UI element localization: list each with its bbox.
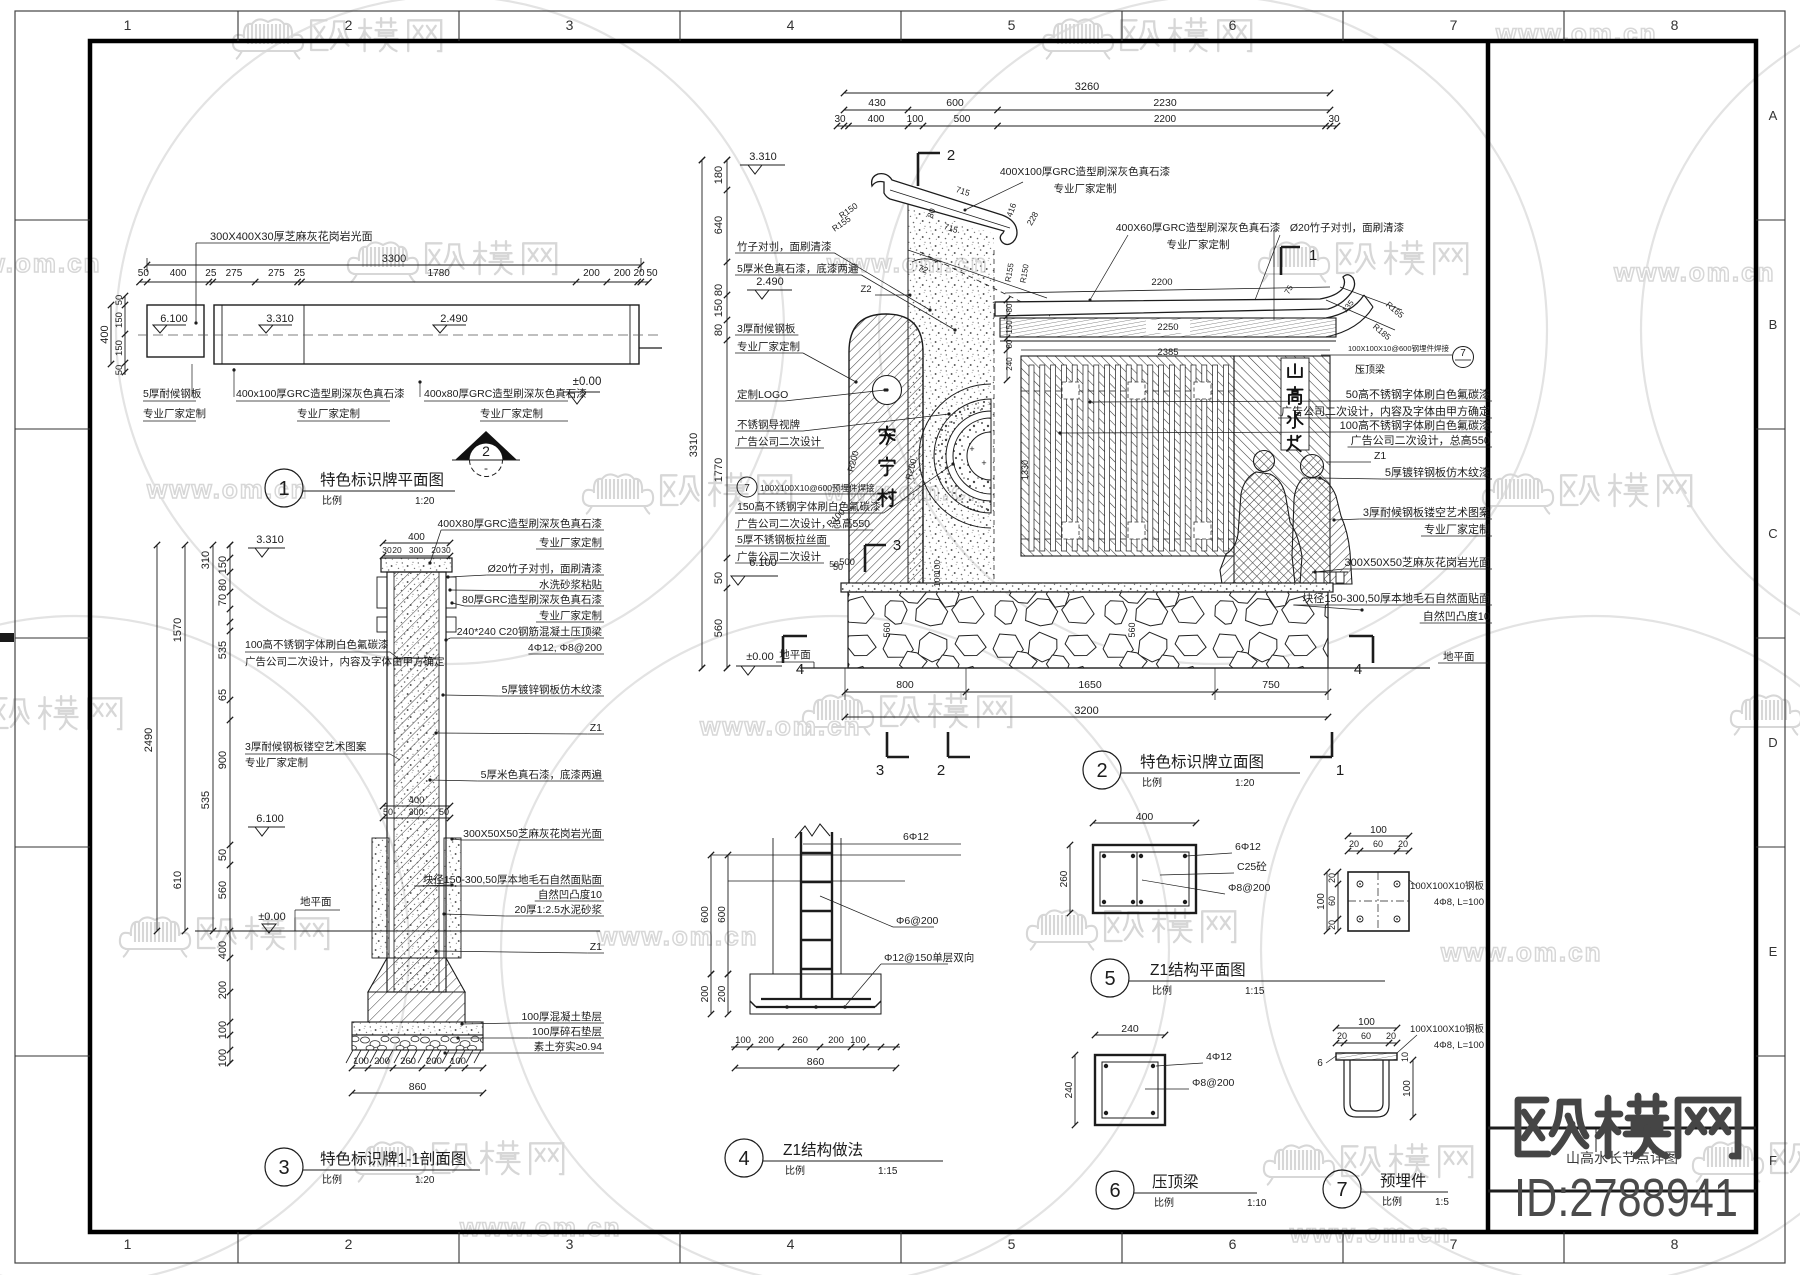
- svg-text:200: 200: [717, 985, 728, 1002]
- svg-text:50: 50: [217, 849, 229, 861]
- svg-text:比例: 比例: [322, 1173, 342, 1186]
- svg-text:275: 275: [268, 268, 285, 279]
- svg-text:比例: 比例: [785, 1164, 805, 1177]
- elev dim row3: [837, 125, 1337, 127]
- svg-text:自然凹凸度10: 自然凹凸度10: [538, 888, 602, 901]
- svg-text:640: 640: [713, 216, 725, 234]
- svg-text:自然凹凸度10: 自然凹凸度10: [1423, 609, 1490, 623]
- section flag 2 top: [917, 153, 920, 186]
- svg-text:3: 3: [876, 762, 884, 779]
- svg-text:3: 3: [893, 537, 901, 554]
- svg-text:专业厂家定制: 专业厂家定制: [539, 536, 602, 549]
- svg-text:1: 1: [278, 478, 289, 500]
- svg-text:3260: 3260: [1075, 81, 1099, 93]
- platform slab: [841, 583, 1333, 592]
- svg-text:比例: 比例: [322, 494, 342, 507]
- detail 3 title: [265, 1148, 303, 1186]
- svg-text:5厚不锈钢板拉丝面: 5厚不锈钢板拉丝面: [737, 533, 827, 546]
- svg-text:±0.00: ±0.00: [746, 651, 773, 663]
- title block lines: [1488, 1127, 1756, 1130]
- level 6.100: [153, 325, 167, 333]
- svg-text:6.100: 6.100: [160, 313, 188, 325]
- svg-text:4: 4: [738, 1148, 749, 1170]
- svg-text:535: 535: [217, 641, 229, 659]
- ladder footing: [750, 974, 881, 1014]
- detail 4 title: [725, 1139, 763, 1177]
- svg-text:F: F: [1769, 1153, 1777, 1168]
- detail 2 title: [1083, 751, 1121, 789]
- pillar text 安宁村: [879, 426, 894, 444]
- svg-text:60: 60: [1361, 1031, 1371, 1041]
- svg-text:2: 2: [345, 1236, 353, 1252]
- svg-text:200: 200: [614, 268, 631, 279]
- svg-text:500: 500: [954, 114, 971, 125]
- hidden roof line: [920, 252, 1050, 316]
- svg-text:240: 240: [1005, 357, 1014, 371]
- svg-text:150: 150: [114, 312, 125, 328]
- svg-text:200: 200: [426, 1056, 442, 1067]
- capbeam dims: [1095, 1034, 1165, 1036]
- svg-text:3: 3: [566, 17, 574, 33]
- svg-text:1: 1: [1309, 247, 1317, 264]
- svg-text:特色标识牌立面图: 特色标识牌立面图: [1140, 753, 1264, 771]
- svg-text:100: 100: [450, 1056, 466, 1067]
- elevation detail 2: [688, 81, 1492, 789]
- svg-text:20: 20: [392, 545, 402, 555]
- svg-text:块径150-300,50厚本地毛石自然面贴面: 块径150-300,50厚本地毛石自然面贴面: [423, 873, 602, 886]
- svg-text:3: 3: [278, 1157, 289, 1179]
- svg-text:260: 260: [792, 1035, 808, 1046]
- svg-text:专业厂家定制: 专业厂家定制: [737, 340, 800, 353]
- svg-text:7: 7: [1336, 1179, 1347, 1201]
- svg-text:2.490: 2.490: [440, 313, 468, 325]
- detail 5 title: [1091, 959, 1129, 997]
- svg-text:100: 100: [1370, 825, 1387, 836]
- svg-text:200: 200: [217, 981, 229, 999]
- svg-text:E: E: [1769, 944, 1778, 959]
- svg-text:20: 20: [431, 545, 441, 555]
- svg-text:3.310: 3.310: [266, 313, 294, 325]
- svg-text:A: A: [1769, 108, 1778, 123]
- svg-text:100: 100: [850, 1035, 866, 1046]
- svg-text:6: 6: [1109, 1180, 1120, 1202]
- svg-text:1:20: 1:20: [1235, 778, 1255, 789]
- svg-text:100高不锈钢字体刷白色氟碳漆: 100高不锈钢字体刷白色氟碳漆: [1340, 418, 1490, 432]
- svg-text:150: 150: [114, 340, 125, 356]
- elev dim row2: [844, 109, 1330, 111]
- section mid dims: [383, 805, 450, 807]
- svg-text:1: 1: [124, 17, 132, 33]
- svg-text:430: 430: [868, 97, 886, 109]
- detail 1 title: [265, 469, 303, 507]
- svg-text:专业厂家定制: 专业厂家定制: [1167, 238, 1230, 251]
- svg-text:100: 100: [217, 1049, 229, 1067]
- ladder bottom dims: [731, 1046, 900, 1048]
- svg-text:200: 200: [828, 1035, 844, 1046]
- svg-text:300X400X30厚芝麻灰花岗岩光面: 300X400X30厚芝麻灰花岗岩光面: [210, 229, 373, 243]
- svg-text:50高不锈钢字体刷白色氟碳漆: 50高不锈钢字体刷白色氟碳漆: [1346, 387, 1490, 401]
- svg-text:25: 25: [205, 268, 217, 279]
- svg-text:4Φ12, Φ8@200: 4Φ12, Φ8@200: [528, 642, 602, 654]
- dim 2250: [1146, 320, 1190, 333]
- svg-text:860: 860: [409, 1081, 427, 1093]
- svg-text:25: 25: [294, 268, 306, 279]
- svg-text:275: 275: [226, 268, 243, 279]
- svg-text:3厚耐候钢板镂空艺术图案: 3厚耐候钢板镂空艺术图案: [245, 740, 367, 753]
- svg-text:2: 2: [345, 17, 353, 33]
- svg-text:5厚镀锌钢板仿木纹漆: 5厚镀锌钢板仿木纹漆: [502, 683, 603, 696]
- elev top dim 3260: [844, 92, 1330, 94]
- stone base: [848, 592, 1328, 668]
- svg-text:4: 4: [787, 1236, 795, 1252]
- svg-text:广告公司二次设计，总高550: 广告公司二次设计，总高550: [1351, 433, 1490, 447]
- site watermark 欧模网 ID: [1518, 1096, 1738, 1156]
- svg-text:860: 860: [807, 1056, 825, 1068]
- svg-text:20: 20: [1349, 839, 1359, 849]
- section top cap: [381, 558, 452, 572]
- svg-text:400x80厚GRC造型刷深灰色真石漆: 400x80厚GRC造型刷深灰色真石漆: [424, 387, 587, 400]
- svg-text:Z1结构做法: Z1结构做法: [783, 1141, 863, 1159]
- svg-text:100X100X10@600预埋件焊接: 100X100X10@600预埋件焊接: [760, 483, 875, 493]
- svg-text:150高不锈钢字体刷白色氟碳漆: 150高不锈钢字体刷白色氟碳漆: [737, 500, 881, 513]
- plan view detail 1: [99, 229, 662, 507]
- svg-text:Z2: Z2: [860, 284, 871, 295]
- gravel bed: [352, 1035, 483, 1050]
- section flag 4 right: [1372, 636, 1375, 663]
- svg-text:块径150-300,50厚本地毛石自然面贴面: 块径150-300,50厚本地毛石自然面贴面: [1302, 591, 1490, 605]
- svg-text:3200: 3200: [1074, 705, 1098, 717]
- plan main bar: [214, 305, 639, 364]
- plan left dims 50 150 150 50: [124, 296, 126, 375]
- svg-text:4: 4: [796, 661, 804, 678]
- svg-text:1: 1: [124, 1236, 132, 1252]
- svg-text:6Φ12: 6Φ12: [1235, 841, 1261, 853]
- circled 7 left: [737, 477, 757, 497]
- svg-text:2: 2: [1096, 760, 1107, 782]
- svg-text:4: 4: [787, 17, 795, 33]
- svg-text:Z1: Z1: [590, 941, 602, 953]
- svg-text:200: 200: [758, 1035, 774, 1046]
- svg-text:2200: 2200: [1151, 277, 1172, 288]
- svg-text:500: 500: [839, 557, 855, 568]
- ladder rungs: [801, 852, 832, 854]
- svg-text:900: 900: [217, 751, 229, 769]
- embed bottom dims: [1336, 1027, 1397, 1029]
- detail 6 title: [1096, 1171, 1134, 1209]
- svg-text:6.100: 6.100: [256, 813, 284, 825]
- svg-text:6: 6: [1229, 1236, 1237, 1252]
- svg-text:B: B: [1769, 317, 1778, 332]
- section top dims 400: [383, 542, 450, 544]
- svg-text:3310: 3310: [688, 433, 700, 457]
- angle dim 72: [908, 250, 1047, 298]
- roof fascia wood band: [1000, 318, 1336, 337]
- svg-text:180: 180: [713, 166, 725, 184]
- svg-text:5厚耐候钢板: 5厚耐候钢板: [143, 387, 202, 400]
- logo disc: [873, 376, 902, 405]
- svg-text:Φ6@200: Φ6@200: [896, 915, 939, 927]
- svg-text:300X50X50芝麻灰花岗岩光面: 300X50X50芝麻灰花岗岩光面: [1345, 555, 1491, 569]
- break symbol: [795, 824, 830, 838]
- detail 7 title: [1323, 1170, 1361, 1208]
- level 2.490: [433, 325, 447, 333]
- svg-text:400: 400: [1136, 811, 1154, 823]
- svg-text:2250: 2250: [1157, 322, 1178, 333]
- svg-text:专业厂家定制: 专业厂家定制: [539, 609, 602, 622]
- svg-text:1330: 1330: [1020, 460, 1030, 480]
- svg-text:C25砼: C25砼: [1237, 860, 1267, 873]
- svg-text:150: 150: [1005, 320, 1014, 334]
- svg-text:10: 10: [1400, 1052, 1410, 1062]
- elev ground line: [800, 667, 1430, 669]
- svg-text:3.310: 3.310: [256, 534, 284, 546]
- svg-text:5: 5: [1008, 1236, 1016, 1252]
- svg-text:80厚GRC造型刷深灰色真石漆: 80厚GRC造型刷深灰色真石漆: [462, 593, 603, 606]
- svg-text:2: 2: [937, 762, 945, 779]
- svg-text:60: 60: [1373, 839, 1383, 849]
- svg-text:100: 100: [932, 560, 942, 574]
- plan left dim 400: [110, 305, 112, 364]
- svg-text:100X100X10钢板: 100X100X10钢板: [1410, 880, 1484, 892]
- svg-text:专业厂家定制: 专业厂家定制: [1424, 522, 1490, 536]
- svg-text:8: 8: [1671, 17, 1679, 33]
- svg-text:1:5: 1:5: [1435, 1197, 1449, 1208]
- svg-text:Φ12@150单层双向: Φ12@150单层双向: [884, 951, 974, 964]
- svg-text:2: 2: [482, 443, 490, 459]
- svg-text:7: 7: [1450, 17, 1458, 33]
- ground line: [195, 930, 600, 932]
- svg-text:±0.00: ±0.00: [258, 911, 285, 923]
- svg-text:7: 7: [744, 483, 750, 494]
- svg-text:5厚米色真石漆，底漆两遍: 5厚米色真石漆，底漆两遍: [737, 262, 859, 275]
- svg-text:750: 750: [1262, 679, 1280, 691]
- svg-text:6: 6: [1317, 1058, 1323, 1069]
- svg-text:20: 20: [1337, 1031, 1347, 1041]
- svg-text:Φ8@200: Φ8@200: [1228, 882, 1271, 894]
- concrete bed: [352, 1022, 483, 1035]
- svg-text:300: 300: [408, 807, 423, 817]
- svg-text:100: 100: [1316, 893, 1327, 910]
- svg-text:www.om.cn: www.om.cn: [459, 1212, 622, 1242]
- svg-text:www.om.cn: www.om.cn: [1613, 257, 1776, 287]
- section column: [387, 572, 446, 992]
- svg-text:50: 50: [829, 559, 839, 569]
- svg-text:1770: 1770: [713, 458, 725, 482]
- svg-text:Z1: Z1: [1374, 450, 1386, 462]
- slats: [1021, 390, 1234, 392]
- svg-text:50: 50: [138, 268, 150, 279]
- fold mark: [0, 633, 14, 642]
- svg-text:5厚镀锌钢板仿木纹漆: 5厚镀锌钢板仿木纹漆: [1385, 465, 1490, 479]
- svg-text:6: 6: [1229, 17, 1237, 33]
- svg-text:240: 240: [1121, 1023, 1139, 1035]
- cap beam line: [394, 657, 439, 659]
- svg-text:80: 80: [713, 284, 725, 296]
- svg-text:150: 150: [713, 299, 725, 317]
- section footing: [368, 992, 465, 1022]
- svg-text:20: 20: [1398, 839, 1408, 849]
- svg-text:C: C: [1768, 526, 1777, 541]
- svg-text:Z1: Z1: [590, 722, 602, 734]
- svg-text:专业厂家定制: 专业厂家定制: [245, 756, 308, 769]
- svg-text:ID:2788941: ID:2788941: [1514, 1168, 1738, 1228]
- svg-text:-: -: [484, 461, 488, 475]
- svg-text:1:15: 1:15: [1245, 986, 1265, 997]
- svg-text:1: 1: [1336, 762, 1344, 779]
- svg-text:广告公司二次设计: 广告公司二次设计: [737, 435, 821, 448]
- slat rails marks: [1062, 382, 1079, 399]
- svg-text:Ø20竹子对刌，面刷清漆: Ø20竹子对刌，面刷清漆: [1290, 221, 1405, 234]
- svg-text:www.om.cn: www.om.cn: [1440, 937, 1603, 967]
- svg-text:560: 560: [1127, 622, 1137, 637]
- detail 5 Z1结构平面图: [1059, 811, 1385, 997]
- level 3.310: [259, 325, 273, 333]
- svg-text:600: 600: [700, 906, 711, 923]
- svg-text:1:10: 1:10: [1247, 1198, 1267, 1209]
- svg-text:6Φ12: 6Φ12: [903, 831, 929, 843]
- footing rebar: [761, 998, 871, 1000]
- stipple concrete band upper: [908, 206, 994, 585]
- svg-text:D: D: [1768, 735, 1777, 750]
- svg-text:4Φ8, L=100: 4Φ8, L=100: [1434, 1040, 1484, 1051]
- svg-text:50: 50: [114, 295, 125, 306]
- svg-text:200: 200: [700, 985, 711, 1002]
- svg-text:www.om.cn: www.om.cn: [596, 921, 759, 951]
- svg-text:400X60厚GRC造型刷深灰色真石漆: 400X60厚GRC造型刷深灰色真石漆: [1116, 221, 1281, 234]
- svg-text:65: 65: [217, 689, 229, 701]
- svg-text:260: 260: [1059, 870, 1070, 887]
- svg-text:水洗砂浆粘贴: 水洗砂浆粘贴: [539, 578, 602, 591]
- plan dim chain row: [140, 281, 649, 283]
- svg-text:100厚碎石垫层: 100厚碎石垫层: [532, 1025, 602, 1038]
- svg-text:20厚1:2.5水泥砂浆: 20厚1:2.5水泥砂浆: [514, 903, 602, 916]
- z1plan dims: [1093, 822, 1196, 824]
- svg-text:3厚耐候钢板: 3厚耐候钢板: [737, 322, 796, 335]
- svg-text:1780: 1780: [428, 268, 451, 279]
- section flag 4 left: [782, 636, 785, 663]
- svg-text:600: 600: [717, 906, 728, 923]
- svg-text:50: 50: [646, 268, 658, 279]
- svg-text:30: 30: [441, 545, 451, 555]
- svg-text:100: 100: [1358, 1017, 1375, 1028]
- svg-text:610: 610: [172, 871, 184, 889]
- svg-text:240*240 C20钢筋混凝土压顶梁: 240*240 C20钢筋混凝土压顶梁: [457, 625, 603, 638]
- embed anchor section: [1336, 1053, 1397, 1060]
- slat screen background: [1021, 356, 1234, 556]
- svg-text:70: 70: [217, 594, 229, 606]
- svg-text:300X50X50芝麻灰花岗岩光面: 300X50X50芝麻灰花岗岩光面: [463, 827, 602, 840]
- svg-text:2.490: 2.490: [756, 276, 784, 288]
- svg-text:3: 3: [566, 1236, 574, 1252]
- svg-text:7: 7: [1460, 348, 1466, 359]
- svg-text:5: 5: [1104, 968, 1115, 990]
- svg-text:560: 560: [713, 619, 725, 637]
- svg-text:2490: 2490: [143, 728, 155, 752]
- elev bottom dims: [845, 691, 1328, 693]
- svg-text:4Φ8, L=100: 4Φ8, L=100: [1434, 897, 1484, 908]
- svg-text:1570: 1570: [172, 618, 184, 642]
- svg-text:定制LOGO: 定制LOGO: [737, 388, 788, 401]
- bottom flags: [886, 732, 889, 757]
- left eave roof: [872, 174, 1017, 245]
- svg-text:50: 50: [383, 807, 393, 817]
- svg-text:400x100厚GRC造型刷深灰色真石漆: 400x100厚GRC造型刷深灰色真石漆: [236, 387, 405, 400]
- svg-text:100高不锈钢字体刷白色氟碳漆: 100高不锈钢字体刷白色氟碳漆: [245, 638, 389, 651]
- svg-text:1:20: 1:20: [415, 496, 435, 507]
- svg-text:80: 80: [1005, 303, 1014, 312]
- svg-text:Z1结构平面图: Z1结构平面图: [1150, 961, 1246, 979]
- svg-text:400: 400: [217, 941, 229, 959]
- main pillar 安宁村: [849, 314, 923, 585]
- svg-text:专业厂家定制: 专业厂家定制: [143, 407, 206, 420]
- section bottom dims: [352, 1067, 483, 1069]
- svg-text:100: 100: [1402, 1080, 1413, 1097]
- svg-text:200: 200: [583, 268, 600, 279]
- svg-text:广告公司二次设计，内容及字体由甲方确定: 广告公司二次设计，内容及字体由甲方确定: [245, 655, 445, 668]
- svg-text:地平面: 地平面: [1443, 650, 1475, 663]
- svg-text:特色标识牌平面图: 特色标识牌平面图: [320, 471, 444, 489]
- svg-text:400: 400: [868, 114, 885, 125]
- decorative rings: [919, 384, 991, 528]
- svg-text:www.om.cn: www.om.cn: [1495, 18, 1658, 48]
- svg-text:150: 150: [217, 556, 229, 574]
- svg-text:20: 20: [633, 268, 645, 279]
- svg-text:8: 8: [1671, 1236, 1679, 1252]
- svg-text:30: 30: [834, 114, 846, 125]
- right roof slab: [995, 275, 1355, 316]
- column outline: [772, 838, 774, 974]
- dim 2200 on roof: [1005, 287, 1330, 293]
- svg-text:www.om.cn: www.om.cn: [699, 711, 862, 741]
- svg-text:100X100X10钢板: 100X100X10钢板: [1410, 1023, 1484, 1035]
- plan left end block: [147, 305, 204, 357]
- detail 7 预埋件: [1316, 825, 1484, 1208]
- detail 6 压顶梁: [1064, 1023, 1267, 1209]
- svg-text:1650: 1650: [1078, 679, 1102, 691]
- svg-text:20: 20: [1386, 1031, 1396, 1041]
- ladder dims: [710, 855, 712, 974]
- svg-text:素土夯实≥0.94: 素土夯实≥0.94: [534, 1040, 602, 1053]
- title block divider: [1486, 41, 1491, 1232]
- section flag 3 mid: [864, 545, 867, 572]
- svg-text:广告公司二次设计: 广告公司二次设计: [737, 550, 821, 563]
- svg-text:50: 50: [439, 807, 449, 817]
- svg-text:2200: 2200: [1154, 114, 1177, 125]
- svg-text:7: 7: [1450, 1236, 1458, 1252]
- svg-text:专业厂家定制: 专业厂家定制: [480, 407, 543, 420]
- svg-text:300: 300: [409, 545, 423, 555]
- svg-text:800: 800: [896, 679, 914, 691]
- svg-text:30: 30: [382, 545, 392, 555]
- elev left dim chain: [701, 160, 703, 668]
- svg-text:广告公司二次设计，总高550: 广告公司二次设计，总高550: [737, 517, 870, 530]
- embed top dims: [1348, 835, 1409, 837]
- section left dim chain: [156, 545, 158, 931]
- svg-text:1:20: 1:20: [415, 1175, 435, 1186]
- svg-text:260: 260: [400, 1056, 416, 1067]
- svg-text:+: +: [981, 458, 986, 468]
- svg-text:4: 4: [1354, 661, 1362, 678]
- soil hatch: [346, 1050, 353, 1063]
- svg-text:2: 2: [947, 147, 955, 164]
- svg-text:广告公司二次设计，内容及字体由甲方确定: 广告公司二次设计，内容及字体由甲方确定: [1281, 404, 1490, 418]
- svg-text:240: 240: [1064, 1081, 1075, 1098]
- section cut symbol 2: [455, 431, 517, 460]
- svg-text:80: 80: [713, 324, 725, 336]
- svg-text:4Φ12: 4Φ12: [1206, 1051, 1232, 1063]
- svg-text:560: 560: [882, 622, 892, 637]
- svg-text:310: 310: [200, 551, 212, 569]
